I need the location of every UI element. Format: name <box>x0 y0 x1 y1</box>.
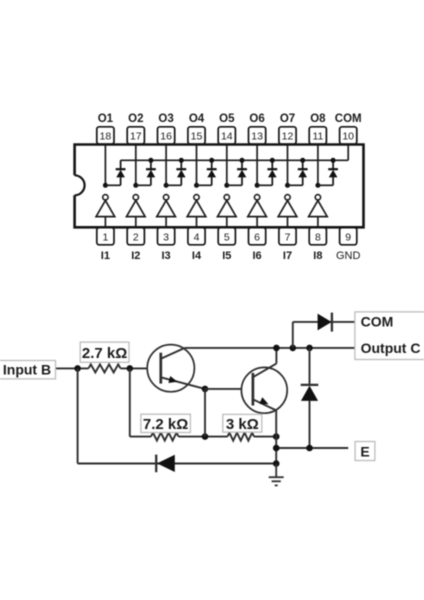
clamp diode D5 <box>237 160 247 185</box>
svg-text:5: 5 <box>224 231 230 243</box>
darlington driver A2 (triangle with bubble) <box>127 195 146 227</box>
wire COM riser <box>292 322 294 348</box>
svg-text:6: 6 <box>254 231 260 243</box>
svg-text:I4: I4 <box>192 250 202 262</box>
pin number box 16 <box>158 127 175 144</box>
clamp diode D3 <box>176 160 186 185</box>
svg-text:I7: I7 <box>283 250 292 262</box>
clamp diode D2 <box>146 160 156 185</box>
wire stub ch1 to diode <box>105 184 120 186</box>
svg-text:GND: GND <box>336 250 361 262</box>
wire stub ch8 to diode <box>318 184 333 186</box>
svg-text:I8: I8 <box>313 250 322 262</box>
node COM riser on rail <box>290 345 297 352</box>
pin number box 11 <box>309 127 326 144</box>
label box COM / Output C <box>355 312 424 360</box>
node D2 cathode on COM rail <box>148 158 153 163</box>
node flyback diode on rail <box>306 345 313 352</box>
svg-text:12: 12 <box>282 131 294 143</box>
wire Q2 emitter column <box>275 410 277 463</box>
wire Q1 emitter to Q2 base <box>205 388 242 390</box>
pin 14 internal lead wire ch5 <box>226 145 228 185</box>
darlington driver A6 (triangle with bubble) <box>248 195 267 227</box>
pin number box 15 <box>188 127 205 144</box>
node diode/E junction <box>306 445 313 452</box>
resistor R2 7.2k <box>151 433 178 441</box>
ground symbol <box>269 464 284 486</box>
node D8 cathode on COM rail <box>331 158 336 163</box>
svg-text:I2: I2 <box>131 250 140 262</box>
COM rail (internal common cathode bus) <box>121 159 349 161</box>
svg-text:O4: O4 <box>189 113 205 125</box>
clamp diode D6 <box>267 160 277 185</box>
svg-text:Input B: Input B <box>3 361 51 377</box>
pin number box 12 <box>279 127 296 144</box>
svg-text:18: 18 <box>100 131 112 143</box>
svg-text:O1: O1 <box>98 113 114 125</box>
pin number box 9 <box>340 228 357 245</box>
COM clamp diode D11 <box>318 313 332 332</box>
wire stub ch7 to diode <box>288 184 303 186</box>
wire stub ch5 to diode <box>227 184 242 186</box>
pin 13 internal lead wire ch6 <box>256 145 258 185</box>
wire Q2 collector riser <box>275 348 277 364</box>
svg-text:11: 11 <box>312 131 323 143</box>
node input junction <box>74 365 81 372</box>
node D5 cathode on COM rail <box>240 158 245 163</box>
svg-text:O6: O6 <box>249 113 264 125</box>
svg-text:10: 10 <box>342 131 354 143</box>
value label 2.7 kΩ <box>80 342 129 362</box>
pin 10 internal lead to COM rail <box>347 145 349 160</box>
input clamp diode D10 <box>156 455 175 473</box>
svg-text:2: 2 <box>133 231 139 243</box>
pin number box 14 <box>218 127 235 144</box>
node emitter/E junction <box>273 445 280 452</box>
node ch1 output junction <box>103 183 108 188</box>
svg-text:I1: I1 <box>101 250 110 262</box>
darlington driver A4 (triangle with bubble) <box>187 195 206 227</box>
pin number box 5 <box>218 228 235 245</box>
pin-1 index notch <box>75 175 85 195</box>
value label 3 kΩ <box>223 414 262 433</box>
wire Q1 base to R2 <box>130 368 205 436</box>
pin 12 internal lead wire ch7 <box>287 145 289 185</box>
node D7 cathode on COM rail <box>300 158 305 163</box>
value label 7.2 kΩ <box>141 414 191 433</box>
svg-text:COM: COM <box>361 313 394 329</box>
pin 18 internal lead wire ch1 <box>104 145 106 185</box>
resistor R3 3k <box>228 433 255 441</box>
wire Q1 emitter node down to R2/R3 <box>204 389 206 437</box>
pin number box 10 <box>340 127 357 144</box>
svg-text:O7: O7 <box>280 113 295 125</box>
clamp diode D7 <box>298 160 308 185</box>
pin number box 13 <box>249 127 266 144</box>
svg-text:O5: O5 <box>219 113 235 125</box>
clamp diode D4 <box>207 160 217 185</box>
svg-text:4: 4 <box>194 231 200 243</box>
node emitter column at R3 <box>273 433 280 440</box>
darlington driver A5 (triangle with bubble) <box>218 195 237 227</box>
pin 15 internal lead wire ch4 <box>196 145 198 185</box>
flyback diode D12 (E to C) <box>301 348 319 448</box>
node ch8 output junction <box>315 183 320 188</box>
node Q1 emitter / Q2 base <box>202 386 209 393</box>
node D3 cathode on COM rail <box>179 158 184 163</box>
svg-text:16: 16 <box>160 131 172 143</box>
darlington driver A1 (triangle with bubble) <box>96 195 115 227</box>
node D4 cathode on COM rail <box>209 158 214 163</box>
label E <box>355 442 375 461</box>
pin number box 1 <box>97 228 114 245</box>
node ch2 output junction <box>133 183 138 188</box>
wire R3 leads <box>205 436 276 438</box>
wire output rail (Output C) <box>185 347 355 349</box>
resistor R1 2.7k <box>89 364 121 372</box>
pin number box 18 <box>97 127 114 144</box>
pin number box 6 <box>249 228 266 245</box>
wire COM lead <box>293 321 355 323</box>
wire stub ch4 to diode <box>197 184 212 186</box>
node ch6 output junction <box>255 183 260 188</box>
transistor Q1 <box>147 345 205 392</box>
svg-text:2.7 kΩ: 2.7 kΩ <box>82 345 127 362</box>
clamp diode D8 <box>328 160 338 185</box>
svg-text:7.2 kΩ: 7.2 kΩ <box>143 416 188 433</box>
svg-text:15: 15 <box>191 131 203 143</box>
svg-text:7: 7 <box>285 231 291 243</box>
svg-text:17: 17 <box>130 131 142 143</box>
darlington driver A3 (triangle with bubble) <box>157 195 176 227</box>
svg-text:E: E <box>360 443 369 459</box>
node ch7 output junction <box>285 183 290 188</box>
node ch4 output junction <box>194 183 199 188</box>
svg-text:13: 13 <box>251 131 263 143</box>
clamp diode D1 <box>116 160 126 185</box>
pin number box 8 <box>309 228 326 245</box>
node ch5 output junction <box>224 183 229 188</box>
IC package U1 (DIP-18 outline) <box>75 145 364 228</box>
svg-text:I6: I6 <box>253 250 262 262</box>
wire Input B to Q1 base with resistor leads <box>56 367 148 369</box>
wire stub ch6 to diode <box>257 184 272 186</box>
pin 16 internal lead wire ch3 <box>165 145 167 185</box>
wire stub ch3 to diode <box>166 184 181 186</box>
node R2/R3 junction <box>202 433 209 440</box>
node ch3 output junction <box>164 183 169 188</box>
svg-text:1: 1 <box>102 231 108 243</box>
transistor Q2 <box>241 364 287 414</box>
pin 17 internal lead wire ch2 <box>135 145 137 185</box>
svg-text:8: 8 <box>315 231 321 243</box>
svg-text:9: 9 <box>345 231 351 243</box>
pin number box 3 <box>158 228 175 245</box>
svg-text:3 kΩ: 3 kΩ <box>226 416 259 433</box>
node Q1 base junction <box>127 365 134 372</box>
node Q2 collector on rail <box>273 345 280 352</box>
pin number box 2 <box>127 228 144 245</box>
pin number box 7 <box>279 228 296 245</box>
svg-text:I5: I5 <box>222 250 231 262</box>
svg-text:COM: COM <box>335 113 362 125</box>
pin 11 internal lead wire ch8 <box>317 145 319 185</box>
wire E lead <box>276 447 348 449</box>
darlington driver A8 (triangle with bubble) <box>309 195 328 227</box>
wire bottom return (clamp diode row) <box>78 463 277 465</box>
wire stub ch2 to diode <box>136 184 151 186</box>
wire input column (left vertical) <box>77 368 79 463</box>
svg-text:14: 14 <box>221 131 233 143</box>
svg-text:3: 3 <box>163 231 169 243</box>
node ground junction <box>273 460 280 467</box>
svg-text:O3: O3 <box>158 113 173 125</box>
pin number box 17 <box>127 127 144 144</box>
label Input B <box>0 361 56 379</box>
svg-text:O2: O2 <box>128 113 143 125</box>
svg-text:I3: I3 <box>162 250 171 262</box>
darlington driver A7 (triangle with bubble) <box>278 195 297 227</box>
node D6 cathode on COM rail <box>270 158 275 163</box>
svg-text:Output C: Output C <box>361 340 421 356</box>
svg-text:O8: O8 <box>310 113 326 125</box>
pin number box 4 <box>188 228 205 245</box>
